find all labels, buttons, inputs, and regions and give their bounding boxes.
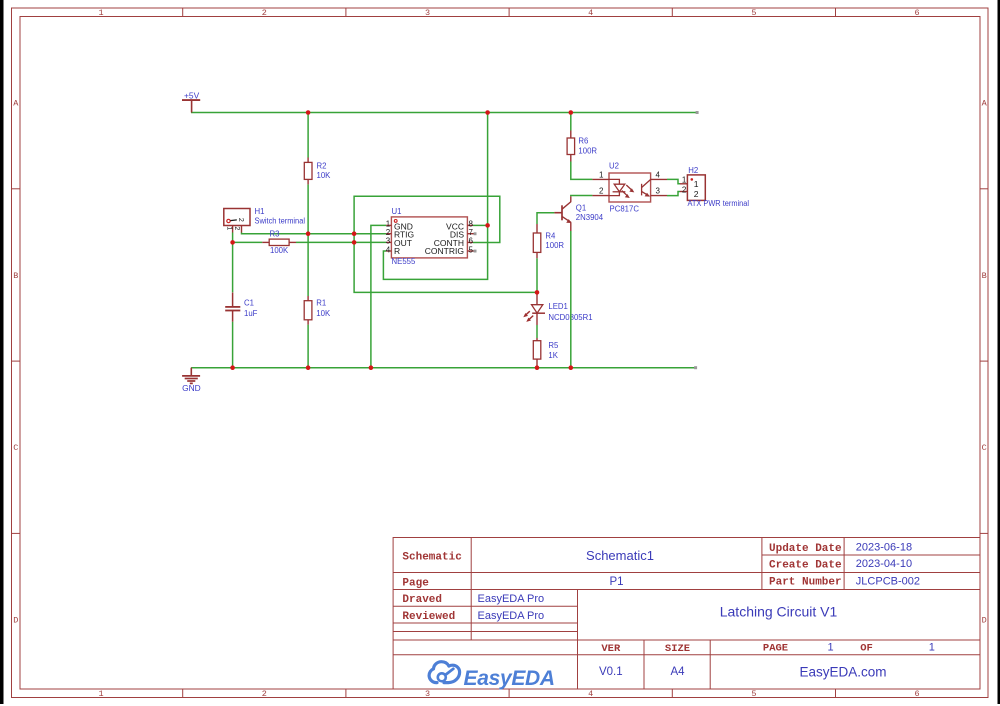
junction GND/R5 <box>535 365 540 370</box>
connector H2 <box>680 166 749 208</box>
svg-text:C1: C1 <box>244 298 254 307</box>
svg-text:V0.1: V0.1 <box>599 666 623 678</box>
wire LED to R5 <box>536 325 538 338</box>
resistor R5 <box>533 338 559 368</box>
IC U1 NE555 timer <box>386 207 475 266</box>
power +5V <box>182 90 200 112</box>
wire R6 to U2 pin1 <box>571 162 593 180</box>
svg-text:GND: GND <box>182 383 201 393</box>
svg-text:10K: 10K <box>316 309 331 318</box>
junction +5V/R6 <box>569 110 574 115</box>
svg-text:2: 2 <box>262 8 267 18</box>
wire OUT row left <box>233 241 263 243</box>
wire U1 GND to rail <box>371 225 386 367</box>
svg-text:2N3904: 2N3904 <box>576 213 604 222</box>
wire VCC riser <box>487 113 489 226</box>
svg-text:+5V: +5V <box>184 90 200 100</box>
resistor R2 <box>304 158 331 185</box>
optocoupler U2 PC817C <box>592 162 667 214</box>
EasyEDA logo <box>429 662 555 690</box>
svg-text:H1: H1 <box>255 207 265 216</box>
svg-text:JLCPCB-002: JLCPCB-002 <box>856 575 920 587</box>
svg-text:Reviewed: Reviewed <box>402 611 455 623</box>
svg-text:4: 4 <box>656 171 661 180</box>
svg-text:1: 1 <box>827 642 833 654</box>
svg-text:H2: H2 <box>688 166 698 175</box>
junction GND/R1 <box>306 365 311 370</box>
wire OUT row right <box>296 241 386 243</box>
wire R2 column <box>307 113 309 368</box>
svg-text:SIZE: SIZE <box>665 643 690 655</box>
svg-text:PC817C: PC817C <box>610 204 640 213</box>
transistor Q1 2N3904 <box>554 196 603 231</box>
svg-text:2023-06-18: 2023-06-18 <box>856 542 912 554</box>
svg-text:EasyEDA: EasyEDA <box>464 667 555 690</box>
connector H1 <box>224 207 305 233</box>
pin 7 DIS no-connect <box>474 232 477 235</box>
svg-text:PAGE: PAGE <box>763 643 788 655</box>
svg-text:VER: VER <box>601 643 621 655</box>
junction +5V/R2 <box>306 110 311 115</box>
svg-text:A: A <box>982 99 988 109</box>
capacitor C1 <box>225 293 257 322</box>
svg-text:3: 3 <box>425 8 430 18</box>
wire U1 R to VCC loop <box>383 225 487 279</box>
svg-text:OF: OF <box>860 643 873 655</box>
svg-text:2: 2 <box>682 185 687 194</box>
svg-text:4: 4 <box>588 689 593 699</box>
svg-text:10K: 10K <box>317 171 332 180</box>
svg-text:A4: A4 <box>670 666 685 678</box>
wire H1 pin2 to U1 RTIG <box>242 233 387 234</box>
svg-text:R3: R3 <box>270 229 280 238</box>
svg-text:2023-04-10: 2023-04-10 <box>856 558 912 570</box>
svg-text:CONTRIG: CONTRIG <box>425 246 464 256</box>
resistor R1 <box>304 296 331 325</box>
svg-text:P1: P1 <box>609 576 623 588</box>
svg-text:ATX PWR terminal: ATX PWR terminal <box>688 199 750 208</box>
svg-text:6: 6 <box>915 689 920 699</box>
svg-text:EasyEDA Pro: EasyEDA Pro <box>478 610 545 622</box>
svg-text:2: 2 <box>233 226 240 230</box>
wire U2 pin3 to H2 pin2 <box>667 192 680 196</box>
wire R4 top to Q1 base <box>537 213 554 224</box>
svg-text:R5: R5 <box>548 341 559 350</box>
svg-text:100R: 100R <box>545 241 564 250</box>
junction OUT/feedback <box>352 240 357 245</box>
svg-text:Schematic: Schematic <box>402 552 461 564</box>
svg-text:4: 4 <box>588 8 593 18</box>
svg-text:1: 1 <box>599 171 604 180</box>
svg-text:Draved: Draved <box>402 594 442 606</box>
junction RTIG/R2 <box>306 231 311 236</box>
svg-text:U2: U2 <box>609 162 619 171</box>
pin 5 CONTRIG no-connect <box>474 250 477 253</box>
svg-text:2: 2 <box>599 187 604 196</box>
svg-text:5: 5 <box>751 689 756 699</box>
resistor R3 <box>262 229 296 255</box>
svg-text:Page: Page <box>402 578 429 590</box>
title block <box>393 538 980 690</box>
svg-text:Schematic1: Schematic1 <box>586 548 654 563</box>
svg-text:R4: R4 <box>545 231 556 240</box>
svg-text:B: B <box>13 271 18 281</box>
svg-text:Update Date: Update Date <box>769 543 842 555</box>
svg-text:1: 1 <box>225 226 232 230</box>
svg-text:Switch terminal: Switch terminal <box>255 216 306 225</box>
wire U2 pin4 to H2 pin1 <box>667 179 680 183</box>
wire OUT feedback to LED node <box>354 234 537 293</box>
svg-text:5: 5 <box>469 245 474 254</box>
wire H1 pin1 down <box>232 233 234 243</box>
svg-text:NE555: NE555 <box>392 257 417 266</box>
svg-text:R: R <box>394 246 400 256</box>
resistor R4 <box>533 224 564 258</box>
svg-text:3: 3 <box>656 187 661 196</box>
junction R4/LED1/feedback <box>535 290 540 295</box>
svg-text:C: C <box>13 443 18 453</box>
svg-text:Latching Circuit V1: Latching Circuit V1 <box>720 604 838 620</box>
junction GND/Q1 emitter <box>569 365 574 370</box>
svg-text:B: B <box>982 271 987 281</box>
wire R6 column top <box>570 113 572 131</box>
svg-text:1: 1 <box>99 8 104 18</box>
svg-text:A: A <box>13 99 19 109</box>
junction GND/C1 <box>230 365 235 370</box>
svg-text:R6: R6 <box>578 136 588 145</box>
svg-text:6: 6 <box>915 8 920 18</box>
svg-text:LED1: LED1 <box>548 302 568 311</box>
svg-text:Create Date: Create Date <box>769 560 842 572</box>
svg-text:C: C <box>982 443 987 453</box>
junction OUT/H1/C1 <box>230 240 235 245</box>
wire CONTH loop <box>354 196 500 242</box>
wire +5V top rail <box>191 112 697 114</box>
wire Q1 collector to U2 pin2 <box>571 195 593 198</box>
ground GND <box>182 368 201 393</box>
svg-text:D: D <box>982 616 987 626</box>
svg-text:R2: R2 <box>317 162 327 171</box>
wire Q1 emitter to rail <box>570 231 572 368</box>
svg-text:1: 1 <box>929 642 935 654</box>
wire C1 column <box>232 242 234 367</box>
svg-text:6: 6 <box>469 237 474 246</box>
resistor R6 <box>567 131 597 162</box>
svg-text:EasyEDA Pro: EasyEDA Pro <box>478 593 545 605</box>
svg-text:5: 5 <box>751 8 756 18</box>
node +5V rail open end <box>696 111 699 114</box>
svg-text:U1: U1 <box>392 207 402 216</box>
svg-text:Part Number: Part Number <box>769 577 842 589</box>
wire GND bottom rail <box>191 367 695 369</box>
svg-text:1: 1 <box>682 175 687 184</box>
wire R4 bottom <box>536 258 538 292</box>
junction +5V/VCC riser <box>485 110 490 115</box>
svg-text:2: 2 <box>262 689 267 699</box>
LED LED1 <box>523 292 592 325</box>
svg-text:EasyEDA.com: EasyEDA.com <box>799 665 886 680</box>
node GND rail open end <box>694 366 697 369</box>
svg-text:1K: 1K <box>548 351 558 360</box>
svg-text:1: 1 <box>99 689 104 699</box>
junction RTIG/feedback <box>352 231 357 236</box>
svg-text:3: 3 <box>425 689 430 699</box>
right screen edge <box>998 0 1000 704</box>
svg-text:Q1: Q1 <box>576 204 586 213</box>
svg-text:2: 2 <box>694 189 699 199</box>
junction GND/U1 <box>369 365 374 370</box>
svg-text:R1: R1 <box>316 299 326 308</box>
junction VCC/R loop <box>485 223 490 228</box>
wire U1 VCC to node <box>473 224 488 226</box>
svg-text:2: 2 <box>237 218 244 222</box>
svg-text:4: 4 <box>386 245 391 254</box>
left screen edge <box>0 0 4 704</box>
svg-text:3: 3 <box>386 237 391 246</box>
svg-text:1: 1 <box>694 179 699 189</box>
svg-text:D: D <box>13 616 18 626</box>
svg-text:100R: 100R <box>578 146 597 155</box>
svg-text:100K: 100K <box>270 246 289 255</box>
svg-text:1uF: 1uF <box>244 309 258 318</box>
